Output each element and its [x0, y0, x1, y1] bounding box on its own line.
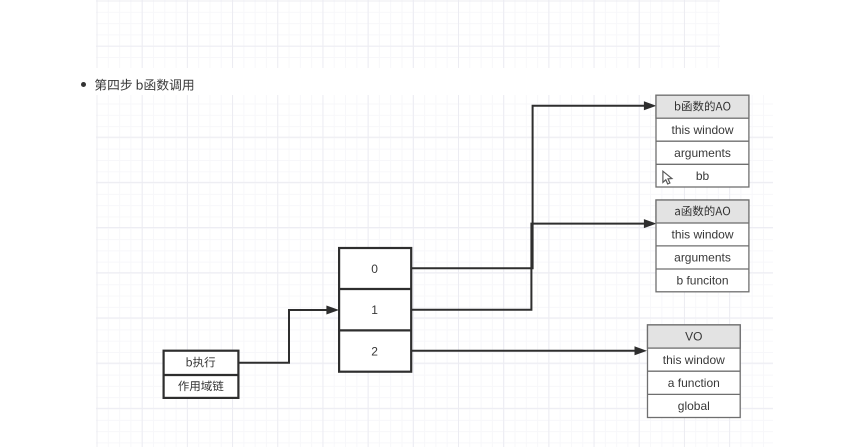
svg-text:a function: a function: [668, 376, 720, 390]
wire b执行 to row 1: [240, 310, 329, 363]
svg-text:b funciton: b funciton: [676, 274, 728, 288]
wire row 1 to a函数的AO: [411, 224, 646, 310]
svg-text:this window: this window: [671, 123, 733, 137]
svg-text:VO: VO: [685, 330, 702, 344]
svg-text:0: 0: [371, 262, 378, 276]
table VO: [648, 325, 741, 418]
box b执行 / 作用域链: [164, 351, 239, 398]
header a函数的AO: [675, 206, 730, 217]
label 作用域链: [178, 381, 223, 392]
svg-text:1: 1: [371, 303, 378, 317]
bullet: [81, 82, 86, 87]
arrowhead into b函数的AO: [644, 102, 655, 110]
svg-text:this window: this window: [663, 353, 725, 367]
svg-text:2: 2: [371, 344, 378, 358]
wire row 0 to b函数的AO: [411, 106, 646, 268]
svg-text:arguments: arguments: [674, 251, 731, 265]
svg-text:global: global: [678, 399, 710, 413]
wire row 2 to VO: [411, 350, 635, 352]
header b函数的AO: [675, 101, 730, 112]
svg-text:bb: bb: [696, 169, 710, 183]
svg-text:arguments: arguments: [674, 146, 731, 160]
grid top band: [96, 0, 720, 68]
grid main canvas: [96, 95, 773, 447]
table b函数的AO: [656, 95, 749, 187]
label b执行: [187, 357, 216, 368]
svg-text:this window: this window: [671, 228, 733, 242]
arrowhead into row 1: [327, 306, 338, 314]
table a函数的AO: [656, 200, 749, 292]
arrowhead into a函数的AO: [644, 220, 655, 228]
title 第四步 b函数调用: [95, 79, 193, 91]
cursor icon: [663, 171, 672, 184]
scope-chain table (rows 0/1/2): [339, 248, 411, 372]
arrowhead into VO: [635, 347, 646, 355]
